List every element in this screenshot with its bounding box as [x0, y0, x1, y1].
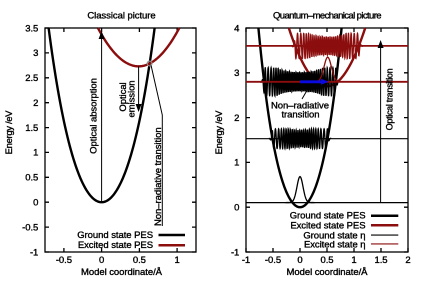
svg-text:Model coordinate/Å: Model coordinate/Å	[81, 267, 163, 278]
non-radiative transition pointer line (left)	[151, 66, 162, 227]
right panel tick marks	[246, 28, 408, 252]
svg-text:Optical absorption: Optical absorption	[89, 78, 100, 154]
svg-text:Excited state PES: Excited state PES	[78, 240, 153, 251]
svg-text:Classical picture: Classical picture	[87, 10, 155, 21]
non-radiative transition blue arrow	[300, 80, 322, 83]
svg-text:0.5: 0.5	[133, 255, 146, 266]
svg-text:4: 4	[234, 23, 239, 34]
excited state level line E=3.6 (dark red)	[246, 45, 408, 47]
ground state wavefunction eta at E=1.53 (black chirp)	[269, 129, 331, 149]
svg-text:1: 1	[234, 158, 239, 169]
svg-text:-0.5: -0.5	[56, 255, 72, 266]
svg-text:2.5: 2.5	[25, 73, 38, 84]
left panel tick marks	[45, 28, 196, 252]
PES crossing marker (open circle)	[147, 61, 152, 66]
svg-text:2: 2	[33, 98, 38, 109]
svg-text:2: 2	[234, 113, 239, 124]
svg-text:0: 0	[99, 255, 104, 266]
svg-text:1: 1	[33, 148, 38, 159]
svg-text:Energy /eV: Energy /eV	[214, 110, 225, 155]
svg-text:-0.5: -0.5	[22, 222, 38, 233]
svg-text:Excited state η: Excited state η	[304, 240, 366, 251]
excited state wavefunction eta at E=3.6 (dark red chirp)	[291, 33, 363, 58]
svg-text:Energy /eV: Energy /eV	[4, 110, 15, 155]
svg-text:3.5: 3.5	[25, 23, 38, 34]
svg-text:0: 0	[234, 203, 239, 214]
svg-text:0: 0	[297, 255, 302, 266]
svg-text:1: 1	[174, 255, 179, 266]
svg-text:emission: emission	[127, 80, 138, 117]
svg-text:3: 3	[33, 48, 38, 59]
excited state ground vibrational wavefunction (red gaussian)	[310, 57, 345, 82]
svg-text:1: 1	[351, 255, 356, 266]
excited state PES parabola (right, dark red)	[289, 28, 365, 86]
ground state ground vibrational wavefunction (black gaussian)	[285, 177, 314, 203]
svg-text:Model coordinate/Å: Model coordinate/Å	[287, 267, 369, 278]
optical emission arrow (vertical, x=0.48)	[138, 66, 140, 106]
svg-text:Optical transition: Optical transition	[385, 68, 395, 130]
svg-text:1.5: 1.5	[374, 255, 387, 266]
ground state PES parabola (left, black)	[49, 28, 155, 202]
optical transition vertical arrow (right panel)	[380, 46, 382, 203]
ground state PES parabola (right, black)	[258, 28, 341, 207]
ground state wavefunction eta at E=2.8 (black chirp)	[259, 68, 340, 96]
svg-text:1.5: 1.5	[25, 123, 38, 134]
svg-text:-0.5: -0.5	[265, 255, 281, 266]
svg-text:3: 3	[234, 68, 239, 79]
svg-text:-1: -1	[231, 247, 239, 258]
svg-text:transition: transition	[281, 110, 319, 121]
svg-text:0: 0	[33, 198, 38, 209]
svg-text:Non–radiative transition: Non–radiative transition	[153, 127, 164, 226]
excited state PES parabola (left, dark red)	[98, 28, 179, 66]
svg-text:Quantum–mechanical picture: Quantum–mechanical picture	[273, 10, 381, 21]
excited state ZPL level line E=2.8 (dark red)	[246, 81, 408, 83]
optical absorption arrow (vertical, x=0)	[101, 37, 103, 202]
ground state ZPL level line E=0.1 (black)	[246, 202, 408, 204]
left panel axes frame	[45, 28, 196, 252]
svg-text:-1: -1	[242, 255, 250, 266]
svg-text:-1: -1	[30, 247, 38, 258]
non-radiative transition label (right panel)	[302, 87, 309, 99]
ground state level line E=1.53 (black)	[246, 138, 408, 140]
svg-text:0.5: 0.5	[320, 255, 333, 266]
right panel axes frame	[246, 28, 408, 252]
svg-text:0.5: 0.5	[25, 173, 38, 184]
svg-text:2: 2	[405, 255, 410, 266]
